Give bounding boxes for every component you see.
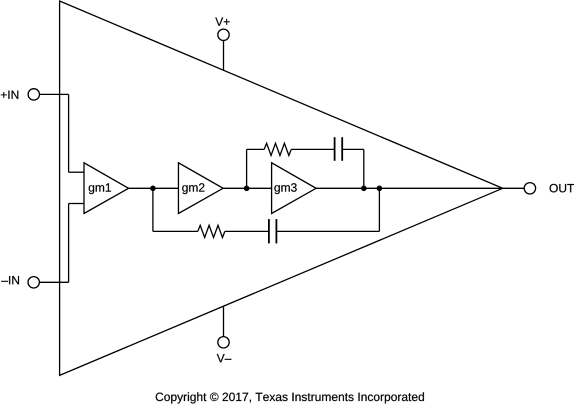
label copyright (156, 392, 424, 403)
label OUT (550, 184, 574, 193)
wire +IN horizontal (40, 93, 69, 95)
wire gm1 output to gm2 input (129, 187, 179, 189)
wire -IN horizontal (39, 281, 68, 283)
node junction lower-feedback right (377, 186, 383, 192)
label V+ (215, 18, 229, 26)
label gm2 (182, 183, 204, 194)
terminal -IN (28, 277, 39, 288)
wire V+ stem (223, 41, 225, 71)
wire -IN stub into gm1 (69, 203, 84, 205)
wire upper feedback left vertical (246, 149, 248, 188)
op-amp U1 main amplifier triangle (60, 1, 503, 375)
wire capacitor C2 to right vertical (276, 230, 379, 232)
label -IN (1, 276, 19, 284)
transconductance amp gm3 (272, 163, 317, 214)
label V- (217, 354, 232, 362)
label gm1 (89, 183, 111, 194)
wire lower feedback right vertical (378, 188, 380, 231)
capacitor C2 lower feedback left plate (268, 219, 270, 243)
wire lower feedback to resistor (153, 230, 198, 232)
node junction gm1-output (150, 186, 156, 192)
wire +IN vertical drop (68, 94, 70, 172)
capacitor C1 upper feedback right plate (341, 137, 343, 161)
wire gm2 output to gm3 input (223, 187, 272, 189)
label +IN (1, 91, 18, 99)
resistor R1 upper feedback (264, 143, 291, 155)
terminal V+ (218, 29, 229, 40)
wire upper feedback right vertical (363, 149, 365, 188)
node junction upper-feedback right (361, 186, 367, 192)
terminal +IN (28, 89, 39, 100)
transconductance amp gm1 (84, 163, 129, 214)
resistor R2 lower feedback (198, 225, 225, 237)
terminal V- (218, 337, 229, 348)
wire gm3 output to op-amp apex (316, 187, 503, 189)
capacitor C1 upper feedback left plate (334, 137, 336, 161)
wire V- stem (223, 306, 225, 337)
capacitor C2 lower feedback right plate (275, 219, 277, 243)
wire resistor R2 to capacitor C2 (225, 230, 269, 232)
wire capacitor C1 to right vertical (342, 148, 364, 150)
wire op-amp output (503, 187, 525, 189)
wire lower feedback left vertical (152, 188, 154, 231)
terminal OUT (524, 183, 535, 194)
transconductance amp gm2 (178, 163, 223, 214)
wire -IN vertical rise (68, 204, 70, 283)
wire upper feedback to resistor (247, 148, 265, 150)
node junction gm2-output (244, 186, 250, 192)
label gm3 (274, 183, 296, 194)
wire +IN stub into gm1 (69, 171, 84, 173)
wire resistor R1 to capacitor C1 (291, 148, 334, 150)
